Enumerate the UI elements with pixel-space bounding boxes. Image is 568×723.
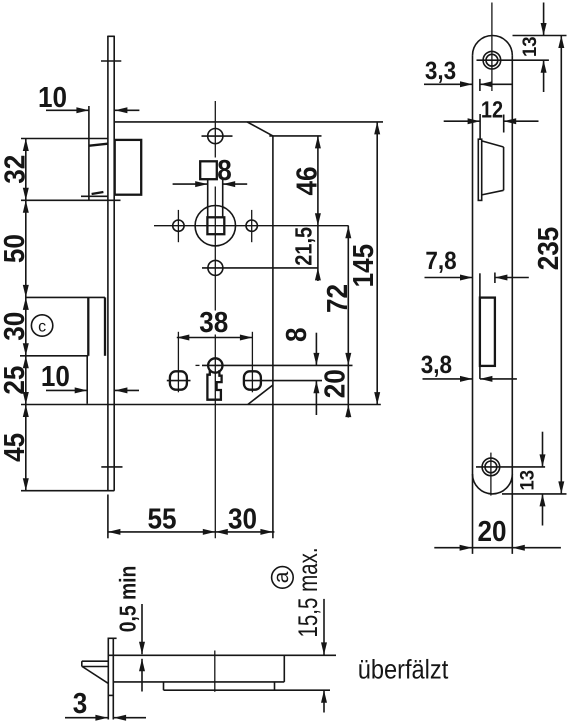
- svg-text:überfälzt: überfälzt: [358, 655, 449, 685]
- svg-text:21,5: 21,5: [290, 227, 316, 266]
- svg-text:8: 8: [217, 155, 232, 187]
- svg-text:3,3: 3,3: [425, 57, 456, 85]
- svg-text:0,5 min: 0,5 min: [115, 566, 141, 633]
- svg-text:13: 13: [517, 470, 539, 491]
- svg-text:12: 12: [481, 97, 503, 123]
- svg-text:10: 10: [41, 361, 70, 393]
- svg-text:13: 13: [519, 36, 541, 57]
- svg-text:a: a: [270, 571, 293, 583]
- svg-text:20: 20: [320, 369, 352, 398]
- svg-text:32: 32: [0, 155, 31, 184]
- svg-text:45: 45: [0, 433, 31, 462]
- svg-text:145: 145: [348, 244, 380, 288]
- svg-text:8: 8: [281, 328, 313, 343]
- svg-text:15,5 max.: 15,5 max.: [293, 547, 323, 637]
- svg-text:50: 50: [0, 234, 31, 263]
- svg-text:c: c: [38, 319, 46, 336]
- svg-text:46: 46: [292, 166, 324, 195]
- svg-text:235: 235: [533, 227, 565, 271]
- svg-text:7,8: 7,8: [425, 247, 456, 275]
- svg-text:10: 10: [38, 82, 67, 114]
- svg-text:72: 72: [322, 284, 354, 313]
- svg-text:20: 20: [477, 516, 506, 548]
- svg-text:30: 30: [0, 312, 31, 341]
- svg-text:3: 3: [73, 688, 88, 720]
- svg-text:38: 38: [199, 307, 228, 339]
- svg-text:25: 25: [0, 366, 31, 395]
- svg-text:30: 30: [228, 504, 257, 536]
- svg-text:3,8: 3,8: [421, 351, 452, 379]
- svg-text:55: 55: [147, 504, 176, 536]
